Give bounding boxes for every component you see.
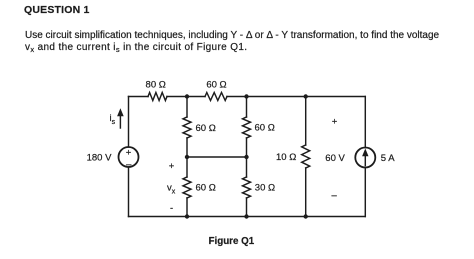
source V1 180V — [119, 147, 139, 167]
resistor R 10ohm — [302, 145, 310, 168]
svg-text:+: + — [332, 116, 338, 127]
resistor R 60ohm vertical upper-right — [243, 117, 251, 138]
svg-text:60 Ω: 60 Ω — [255, 123, 275, 134]
svg-text:30 Ω: 30 Ω — [255, 183, 275, 194]
node bot-b4 — [304, 214, 308, 218]
svg-text:180 V: 180 V — [87, 153, 112, 164]
svg-text:60 Ω: 60 Ω — [196, 123, 216, 134]
wire left edge below source — [128, 167, 130, 217]
wire top rail left segment — [129, 96, 149, 98]
wire branch4 bottom stub — [305, 168, 307, 217]
svg-text:is: is — [110, 113, 116, 126]
resistor R 60ohm horizontal — [205, 93, 227, 101]
svg-text:+: + — [169, 161, 175, 172]
svg-text:60 Ω: 60 Ω — [206, 80, 226, 91]
wire branch3 mid stub — [246, 138, 248, 177]
svg-text:+: + — [126, 148, 132, 159]
resistor R 80ohm — [148, 93, 167, 101]
wire bottom rail — [129, 216, 366, 218]
current arrow is — [119, 114, 121, 129]
problem statement paragraph — [25, 30, 474, 54]
svg-text:-: - — [170, 203, 173, 214]
wire branch4 top stub — [305, 97, 307, 146]
node top-b4 — [304, 94, 308, 98]
wire top rail right segment — [227, 96, 365, 98]
wire right edge above source — [364, 97, 366, 148]
wire left edge above source — [128, 97, 130, 148]
svg-text:5 A: 5 A — [381, 153, 395, 164]
svg-text:10 Ω: 10 Ω — [276, 152, 296, 163]
node bot-b2 — [185, 214, 189, 218]
svg-text:60 Ω: 60 Ω — [196, 183, 216, 194]
resistor R 60ohm vertical upper-left — [183, 117, 191, 138]
resistor R 30ohm — [243, 177, 251, 198]
resistor R 60ohm vx — [183, 177, 191, 198]
node bot-b3 — [244, 214, 248, 218]
wire branch2 mid stub — [186, 138, 188, 177]
wire middle rail — [187, 156, 247, 158]
svg-text:–: – — [332, 190, 338, 201]
svg-text:80 Ω: 80 Ω — [146, 80, 166, 91]
source I1 5A — [355, 148, 375, 168]
node mid-b3 — [244, 155, 248, 159]
wire branch3 bottom stub — [246, 198, 248, 217]
svg-text:vx: vx — [167, 183, 176, 196]
wire right edge below source — [364, 168, 366, 217]
svg-text:60 V: 60 V — [325, 153, 345, 164]
wire top rail between 80ohm and 60ohm — [167, 96, 205, 98]
caption Figure Q1 — [209, 236, 255, 247]
wire branch3 top stub — [246, 97, 248, 118]
heading QUESTION 1 — [24, 4, 90, 16]
node top-b3 — [244, 94, 248, 98]
wire branch2 bottom stub — [186, 198, 188, 217]
node mid-b2 — [185, 155, 189, 159]
wire branch2 top stub — [186, 97, 188, 118]
node top-b2 — [185, 94, 189, 98]
